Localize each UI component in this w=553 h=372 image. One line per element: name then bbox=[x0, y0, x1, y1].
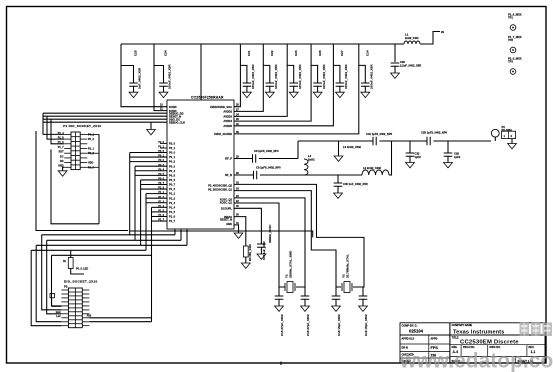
svg-text:AVDD5: AVDD5 bbox=[223, 124, 232, 128]
wire net RF_N bbox=[234, 174, 253, 176]
svg-text:P2_0: P2_0 bbox=[158, 141, 164, 144]
wire net RESET_N bbox=[43, 115, 167, 117]
svg-text:C29: C29 bbox=[454, 152, 459, 156]
wire P1 left stub bbox=[64, 148, 71, 150]
connector P3 SMA pin box bbox=[502, 131, 516, 138]
ground bbox=[234, 233, 243, 238]
wire stub C24 bbox=[154, 66, 164, 84]
capacitor C18 bbox=[332, 296, 341, 299]
ground bbox=[289, 92, 298, 97]
svg-text:P1_6_MXX: P1_6_MXX bbox=[508, 12, 522, 16]
wire net P1_4 bbox=[152, 206, 168, 208]
watermark CJK blocks bbox=[520, 323, 530, 337]
wire P2 right stub bbox=[82, 297, 89, 299]
svg-text:P2_2: P2_2 bbox=[88, 152, 94, 155]
wire bus bbox=[145, 194, 147, 251]
wire net P1_7 bbox=[152, 220, 168, 222]
svg-text:32MHz_XTAL_SMD: 32MHz_XTAL_SMD bbox=[288, 250, 292, 278]
svg-text:C27: C27 bbox=[340, 50, 344, 56]
svg-text:P0_1: P0_1 bbox=[88, 133, 94, 136]
svg-text:P0_1: P0_1 bbox=[169, 155, 176, 159]
wire bbox=[180, 229, 182, 240]
svg-text:32.768kHz_XTAL: 32.768kHz_XTAL bbox=[345, 254, 349, 278]
wire stub C23 bbox=[287, 65, 294, 83]
capacitor C32 bbox=[406, 153, 415, 156]
svg-text:C26: C26 bbox=[318, 50, 322, 56]
svg-text:C16 27pF_0402: C16 27pF_0402 bbox=[306, 314, 310, 336]
wire P1 left stub bbox=[64, 166, 71, 168]
wire bbox=[362, 299, 364, 306]
wire bbox=[260, 174, 362, 176]
wire bbox=[47, 116, 64, 139]
wire bbox=[87, 166, 99, 168]
wire bbox=[511, 139, 513, 144]
svg-text:L4: L4 bbox=[308, 154, 312, 158]
wire bbox=[63, 167, 65, 171]
wire net P0_7 bbox=[141, 183, 167, 185]
capacitor C23 bbox=[289, 83, 298, 86]
wire P1 right stub bbox=[80, 143, 87, 145]
wire bbox=[364, 86, 366, 92]
wire bbox=[269, 86, 271, 92]
wire bbox=[42, 234, 175, 236]
wire P2 left stub bbox=[61, 301, 68, 303]
svg-text:100nF_0402_X5R: 100nF_0402_X5R bbox=[370, 64, 374, 89]
wire net P0_0 bbox=[130, 152, 167, 154]
wire bbox=[87, 133, 99, 135]
ground bbox=[336, 92, 345, 97]
ground bbox=[275, 306, 284, 311]
wire AVDD riser bbox=[234, 44, 359, 134]
wire P1 right stub bbox=[80, 133, 87, 135]
wire bbox=[339, 86, 341, 92]
svg-text:P1_6: P1_6 bbox=[169, 215, 176, 219]
svg-text:P2_0_MXX: P2_0_MXX bbox=[508, 56, 522, 60]
wire P2 left stub bbox=[61, 289, 68, 291]
wire bbox=[335, 287, 337, 296]
svg-text:GND: GND bbox=[226, 222, 232, 226]
ground bbox=[313, 92, 322, 97]
wire net P2_1 stub bbox=[160, 147, 167, 149]
wire net P0_3 bbox=[135, 165, 167, 167]
wire bbox=[278, 287, 280, 296]
wire P2 left stub bbox=[61, 317, 68, 319]
svg-text:RF-SMA: RF-SMA bbox=[502, 128, 513, 132]
svg-text:C31 1pF8_0402_NP0: C31 1pF8_0402_NP0 bbox=[366, 132, 393, 136]
wire DVDD1 riser bbox=[121, 44, 167, 107]
wire net XOSC32K_Q2 bbox=[234, 184, 364, 287]
svg-text:TP1: TP1 bbox=[508, 16, 513, 20]
wire bbox=[297, 141, 299, 159]
svg-text:P0_6: P0_6 bbox=[158, 178, 164, 181]
svg-text:P2_1: P2_1 bbox=[88, 148, 94, 151]
wire bbox=[317, 86, 319, 92]
wire P2 right stub bbox=[82, 313, 89, 315]
wire bbox=[278, 299, 280, 306]
svg-text:2nH2: 2nH2 bbox=[308, 158, 315, 162]
svg-text:C24: C24 bbox=[163, 50, 167, 56]
svg-text:Texas Instruments: Texas Instruments bbox=[453, 329, 505, 335]
wire net XOSC32K_Q1 bbox=[234, 191, 341, 287]
wire bbox=[36, 245, 61, 321]
svg-text:1pF2: 1pF2 bbox=[454, 155, 461, 159]
wire P2 left stub bbox=[61, 313, 68, 315]
wire P2 left stub bbox=[61, 309, 68, 311]
svg-text:RESET_N: RESET_N bbox=[220, 218, 232, 222]
svg-text:P0_3: P0_3 bbox=[169, 164, 176, 168]
svg-text:L3 2nH2_0402: L3 2nH2_0402 bbox=[343, 145, 361, 149]
wire bbox=[52, 254, 152, 256]
svg-text:C22: C22 bbox=[270, 50, 274, 56]
svg-text:C18 15pF_0402: C18 15pF_0402 bbox=[337, 314, 341, 336]
wire P2 left stub bbox=[61, 297, 68, 299]
wire P1 left stub bbox=[64, 162, 71, 164]
wire P2 right stub bbox=[82, 309, 89, 311]
ground bbox=[444, 163, 453, 168]
svg-text:CC2530F256RHAR: CC2530F256RHAR bbox=[191, 96, 224, 100]
wire bbox=[47, 240, 62, 313]
wire P1 left stub bbox=[64, 157, 71, 159]
svg-text:P0_7: P0_7 bbox=[88, 166, 94, 169]
wire net DEBUG_CLK bbox=[43, 121, 167, 123]
svg-text:AVDD/AVDD_SOC: AVDD/AVDD_SOC bbox=[210, 105, 232, 109]
wire P2 right stub bbox=[82, 325, 89, 327]
svg-text:P1_2: P1_2 bbox=[158, 196, 164, 199]
wire bbox=[394, 66, 396, 73]
wire bbox=[31, 249, 146, 251]
svg-text:C8 1pF8_0402_NP0: C8 1pF8_0402_NP0 bbox=[254, 149, 279, 153]
svg-text:P1_5: P1_5 bbox=[169, 210, 176, 214]
svg-text:29: 29 bbox=[441, 30, 445, 34]
svg-text:2.2uF_0402_X5R: 2.2uF_0402_X5R bbox=[400, 64, 421, 68]
svg-text:TP3: TP3 bbox=[508, 60, 513, 64]
wire bbox=[420, 32, 440, 45]
wire P1 right stub bbox=[80, 162, 87, 164]
svg-text:AVDD2: AVDD2 bbox=[223, 110, 232, 114]
svg-text:P1_7: P1_7 bbox=[158, 219, 164, 222]
wire bbox=[87, 152, 99, 154]
svg-text:1uF_0402_X5R: 1uF_0402_X5R bbox=[137, 67, 141, 89]
ground bbox=[406, 163, 415, 168]
svg-text:P0_4: P0_4 bbox=[169, 169, 176, 173]
wire bbox=[163, 86, 165, 92]
wire P1 right stub bbox=[80, 166, 87, 168]
wire bus bbox=[140, 180, 142, 245]
svg-text:100nF_0402_X5R: 100nF_0402_X5R bbox=[167, 64, 171, 89]
svg-text:COMPANY NAME: COMPANY NAME bbox=[452, 324, 473, 327]
svg-text:AVDD3: AVDD3 bbox=[223, 115, 232, 119]
capacitor C30 bbox=[334, 183, 343, 186]
wire P1 right stub bbox=[80, 148, 87, 150]
wire net XOSC_Q1 bbox=[234, 203, 285, 287]
wire net P1_0 bbox=[141, 188, 167, 190]
wire P2 left stub bbox=[61, 293, 68, 295]
wire AVDD riser bbox=[234, 44, 311, 121]
svg-text:P1_0: P1_0 bbox=[169, 187, 176, 191]
wire bbox=[409, 156, 411, 163]
wire bbox=[447, 156, 449, 163]
svg-text:RF_N: RF_N bbox=[225, 173, 232, 177]
wire bbox=[31, 250, 61, 325]
ground bbox=[301, 306, 310, 311]
wire AVDD riser bbox=[234, 44, 287, 116]
svg-text:P2_4/XOSC32K_Q2: P2_4/XOSC32K_Q2 bbox=[208, 183, 232, 187]
wire bbox=[133, 86, 135, 92]
resistor R3 bbox=[243, 246, 248, 257]
wire RF rail bbox=[298, 140, 373, 142]
ground bbox=[508, 144, 517, 149]
wire net P2_4 bbox=[89, 321, 151, 323]
svg-text:APPD-XLS: APPD-XLS bbox=[402, 338, 415, 341]
ground bbox=[147, 130, 156, 135]
capacitor C25 bbox=[129, 83, 138, 86]
capacitor C26 bbox=[313, 83, 322, 86]
svg-text:Gnd: Gnd bbox=[56, 311, 61, 314]
svg-text:P23: P23 bbox=[87, 315, 92, 318]
capacitor C21 bbox=[243, 83, 252, 86]
svg-text:C25: C25 bbox=[133, 50, 137, 56]
svg-text:P0_7: P0_7 bbox=[169, 183, 176, 187]
svg-text:P0_7: P0_7 bbox=[158, 182, 164, 185]
svg-text:XOSC_Q1: XOSC_Q1 bbox=[220, 201, 233, 205]
svg-text:C14: C14 bbox=[366, 50, 370, 56]
capacitor C29 bbox=[444, 153, 453, 156]
svg-text:AVDD4: AVDD4 bbox=[223, 119, 232, 123]
net VDD rail bbox=[121, 43, 404, 45]
wire bbox=[335, 299, 337, 306]
wire AVDD riser bbox=[234, 44, 333, 126]
svg-text:P1_7: P1_7 bbox=[169, 219, 176, 223]
svg-text:100nF_0402_X5R: 100nF_0402_X5R bbox=[322, 64, 326, 89]
wire P2 right stub bbox=[82, 305, 89, 307]
op IC U1 CC2530F256RHAR body bbox=[167, 100, 234, 229]
wire bbox=[389, 141, 392, 175]
wire bbox=[150, 122, 152, 129]
svg-text:DEBUG_CLK: DEBUG_CLK bbox=[169, 120, 185, 124]
wire stub C26 bbox=[311, 65, 318, 83]
svg-text:P0_2: P0_2 bbox=[158, 159, 164, 162]
connector P2 body grid bbox=[68, 288, 82, 328]
wire bbox=[337, 186, 339, 193]
wire bbox=[36, 131, 128, 231]
resistor R1 bbox=[70, 250, 72, 257]
svg-text:C19 15pF_0402: C19 15pF_0402 bbox=[364, 314, 368, 336]
capacitor C22 bbox=[266, 83, 275, 86]
wire stub C20 bbox=[394, 44, 396, 62]
svg-text:100nF_0402_X5R: 100nF_0402_X5R bbox=[274, 64, 278, 89]
svg-text:P2: P2 bbox=[64, 285, 68, 289]
svg-text:DIO_SOCKET_2X10: DIO_SOCKET_2X10 bbox=[64, 279, 98, 283]
wire bbox=[186, 229, 188, 245]
svg-text:C20: C20 bbox=[400, 60, 405, 64]
wire net GND bbox=[234, 225, 239, 233]
svg-text:L1: L1 bbox=[405, 33, 409, 37]
wire net P1_3 bbox=[146, 202, 167, 204]
svg-text:P1_7_MXX: P1_7_MXX bbox=[508, 35, 522, 39]
wire bbox=[42, 235, 62, 310]
svg-text:P0_2: P0_2 bbox=[169, 160, 176, 164]
wire AVDD riser bbox=[234, 44, 263, 111]
svg-text:COMP-BY: G.: COMP-BY: G. bbox=[402, 325, 418, 328]
wire bus bbox=[129, 153, 131, 235]
ground bbox=[243, 92, 252, 97]
wire P2 left stub bbox=[61, 325, 68, 327]
svg-text:P1_3: P1_3 bbox=[158, 200, 164, 203]
wire bbox=[71, 269, 84, 275]
wire net DCOUPL bbox=[234, 208, 261, 244]
wire net P1_6 bbox=[152, 215, 168, 217]
svg-text:C21: C21 bbox=[247, 50, 251, 56]
wire stub C14 bbox=[359, 65, 366, 83]
test point TP1 bbox=[510, 25, 516, 31]
wire P2 right stub bbox=[82, 321, 89, 323]
svg-text:P1_3: P1_3 bbox=[169, 201, 176, 205]
svg-text:32MHz_XOSC: 32MHz_XOSC bbox=[268, 225, 272, 243]
svg-text:C17 1uF_0402: C17 1uF_0402 bbox=[262, 241, 266, 260]
wire net P1_2 bbox=[146, 197, 167, 199]
wire bbox=[36, 244, 187, 246]
ground bbox=[129, 92, 138, 97]
svg-text:P1_4: P1_4 bbox=[169, 205, 176, 209]
wire bus bbox=[151, 207, 153, 321]
svg-text:APPD: APPD bbox=[431, 338, 438, 341]
wire stub C27 bbox=[333, 65, 340, 83]
svg-text:P1_1: P1_1 bbox=[158, 191, 164, 194]
wire crystal feed bbox=[130, 231, 313, 237]
wire bbox=[433, 140, 491, 142]
svg-text:R3 56k_0402: R3 56k_0402 bbox=[248, 244, 252, 261]
svg-text:C25 1pF2_0402_NP0: C25 1pF2_0402_NP0 bbox=[421, 131, 448, 135]
svg-text:P0_0: P0_0 bbox=[169, 151, 176, 155]
wire AVDD riser to IC top bbox=[200, 44, 202, 100]
svg-text:RST: RST bbox=[59, 151, 64, 154]
wire bbox=[51, 149, 99, 223]
ground bbox=[159, 92, 168, 97]
wire P2 right stub bbox=[82, 293, 89, 295]
svg-text:C30 1nF_0402_X5R: C30 1nF_0402_X5R bbox=[343, 182, 368, 186]
svg-text:P0_0: P0_0 bbox=[158, 150, 164, 153]
wire bbox=[246, 86, 248, 92]
border tick bbox=[280, 362, 282, 366]
wire bbox=[362, 287, 364, 296]
wire bbox=[304, 299, 306, 306]
ground bbox=[334, 156, 343, 161]
wire P2 left stub bbox=[61, 321, 68, 323]
svg-text:100nF_0402_X5R: 100nF_0402_X5R bbox=[298, 64, 302, 89]
svg-text:C23: C23 bbox=[294, 50, 298, 56]
wire P1 left stub bbox=[64, 138, 71, 140]
svg-text:C15 27pF_0402: C15 27pF_0402 bbox=[280, 314, 284, 336]
svg-text:C32: C32 bbox=[415, 152, 420, 156]
ground bbox=[391, 73, 400, 78]
svg-text:TITLE: TITLE bbox=[452, 337, 459, 340]
wire bbox=[494, 137, 496, 141]
svg-text:P2_0: P2_0 bbox=[169, 142, 176, 146]
wire P2 right stub bbox=[82, 317, 89, 319]
ground bbox=[241, 263, 250, 268]
wire net P0_6 bbox=[141, 179, 167, 181]
svg-text:P0_0_LED: P0_0_LED bbox=[76, 268, 88, 271]
inductor L1 bbox=[404, 41, 420, 44]
wire bbox=[409, 141, 411, 153]
wire net P0_4 bbox=[135, 170, 167, 172]
wire net P2_0 stub bbox=[160, 142, 167, 144]
wire net DEBUG_DD bbox=[43, 112, 167, 114]
wire bbox=[52, 298, 62, 307]
crystal Y2 bbox=[344, 282, 350, 293]
ground bbox=[332, 306, 341, 311]
svg-text:DC: DC bbox=[60, 155, 64, 158]
capacitor C31 bbox=[373, 137, 376, 146]
wire net P2_3 bbox=[89, 317, 151, 319]
svg-text:VDD: VDD bbox=[88, 162, 93, 165]
capacitor C25B bbox=[427, 137, 430, 146]
capacitor C24 bbox=[159, 83, 168, 86]
wire net RBIAS bbox=[234, 217, 246, 246]
wire net P0_1 bbox=[130, 156, 167, 158]
wire P1 right stub bbox=[80, 152, 87, 154]
ground bbox=[359, 306, 368, 311]
wire net P1_5 bbox=[152, 211, 168, 213]
ground bbox=[257, 254, 266, 259]
svg-text:100nF_0402_X5R: 100nF_0402_X5R bbox=[251, 64, 255, 89]
wire bus bbox=[134, 166, 136, 240]
svg-text:P0_5: P0_5 bbox=[169, 173, 176, 177]
ground bbox=[265, 92, 274, 97]
svg-text:1pF2: 1pF2 bbox=[415, 155, 422, 159]
wire P1 left stub bbox=[64, 133, 71, 135]
inductor L2 bbox=[362, 170, 389, 175]
wire net P0_2 bbox=[130, 161, 167, 163]
wire bbox=[98, 135, 100, 224]
wire net XOSC_Q2 bbox=[234, 198, 305, 287]
capacitor C16 bbox=[301, 296, 310, 299]
title block frame bbox=[400, 323, 545, 363]
capacitor C15 bbox=[275, 296, 284, 299]
svg-text:P1_7: P1_7 bbox=[58, 146, 64, 149]
wire P1 left stub bbox=[64, 152, 71, 154]
svg-text:P1_0: P1_0 bbox=[158, 187, 164, 190]
svg-text:P0_3: P0_3 bbox=[158, 164, 164, 167]
svg-text:P0_6: P0_6 bbox=[169, 178, 176, 182]
connector P3 SMA circle bbox=[491, 129, 499, 137]
capacitor C8 bbox=[253, 154, 256, 163]
wire net RF_P bbox=[234, 158, 252, 160]
wire bbox=[447, 141, 449, 153]
svg-text:DD: DD bbox=[60, 160, 64, 163]
wire net DBG_DC bbox=[43, 118, 167, 120]
wire bbox=[43, 113, 64, 134]
wire P2 right stub bbox=[82, 301, 89, 303]
svg-text:L2 2nH2_0402: L2 2nH2_0402 bbox=[363, 166, 381, 170]
svg-text:Led: Led bbox=[56, 315, 61, 318]
svg-text:P1_6: P1_6 bbox=[158, 214, 164, 217]
wire DVDD2 riser bbox=[154, 44, 167, 111]
svg-text:RF_P: RF_P bbox=[225, 157, 232, 161]
wire stub C21 bbox=[240, 65, 247, 83]
test point TP2 bbox=[510, 47, 516, 53]
test point TP3 bbox=[510, 69, 516, 75]
svg-text:2nH2_0402: 2nH2_0402 bbox=[405, 36, 419, 40]
wire bbox=[51, 119, 64, 144]
jumper G1 bbox=[50, 293, 54, 297]
wire P1 right stub bbox=[80, 157, 87, 159]
svg-text:P2_1: P2_1 bbox=[169, 146, 176, 150]
wire net P1_1 bbox=[146, 193, 167, 195]
svg-text:DVDD: DVDD bbox=[169, 105, 177, 109]
wire stub C25 bbox=[121, 66, 134, 84]
wire P1 right stub bbox=[80, 138, 87, 140]
